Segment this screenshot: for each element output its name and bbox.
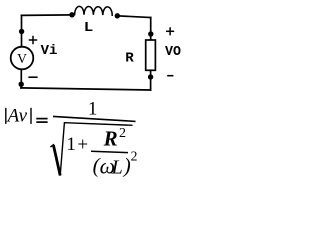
wire bottom rail <box>21 88 151 90</box>
node resistor top junction <box>148 31 153 36</box>
resistor R body <box>146 40 156 70</box>
node inductor left junction <box>69 12 74 17</box>
svg-text:Vi: Vi <box>41 43 58 59</box>
wire top-left rail <box>21 14 72 17</box>
minus sign left <box>29 76 37 78</box>
svg-text:VO: VO <box>165 45 181 60</box>
svg-text:): ) <box>123 153 131 177</box>
svg-text:L: L <box>84 20 94 36</box>
svg-text:A: A <box>6 106 20 127</box>
svg-text:2: 2 <box>131 149 138 164</box>
svg-text:1: 1 <box>66 134 76 155</box>
inner fraction bar <box>91 151 128 152</box>
svg-text:2: 2 <box>119 125 126 140</box>
svg-text:1: 1 <box>88 99 98 120</box>
node bottom-left junction <box>19 82 24 87</box>
plus sign right <box>167 28 174 35</box>
radical sign <box>50 123 132 176</box>
minus sign right <box>168 75 173 77</box>
svg-text:V: V <box>17 51 27 66</box>
wire left vertical upper <box>21 15 23 46</box>
plus sign left <box>30 37 37 44</box>
wire right vertical upper <box>150 18 152 41</box>
wire left vertical lower <box>20 69 22 88</box>
formula |Av| left bar <box>5 108 7 124</box>
wire right vertical lower <box>150 70 152 90</box>
svg-text:v: v <box>19 106 28 127</box>
svg-text:R: R <box>103 126 118 150</box>
node inductor right junction <box>115 13 120 18</box>
formula equals <box>36 119 47 123</box>
wire top-right rail <box>117 16 150 18</box>
formula |Av| right bar <box>30 108 32 124</box>
svg-text:L: L <box>111 156 123 178</box>
formula main fraction bar <box>53 116 136 121</box>
source V1 circle <box>11 47 34 70</box>
svg-text:+: + <box>77 135 88 156</box>
inductor L coil <box>75 6 113 15</box>
svg-text:R: R <box>125 51 134 66</box>
node resistor bottom junction <box>148 74 153 79</box>
node top-left junction <box>19 29 24 34</box>
